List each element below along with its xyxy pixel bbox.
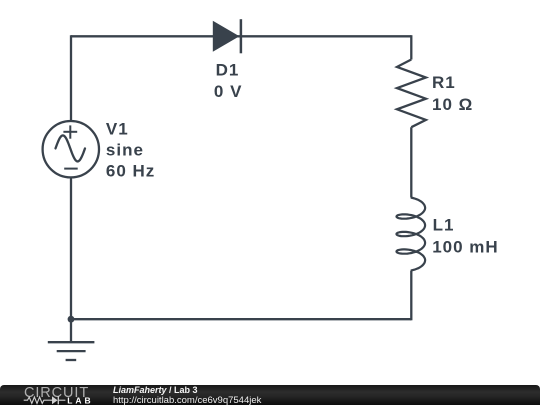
footer title xyxy=(113,385,198,395)
label V1 xyxy=(106,120,155,181)
wire right vertical lower xyxy=(410,271,412,321)
CircuitLab logo diode glyph xyxy=(52,396,58,404)
voltage source V1 sine wave xyxy=(56,135,86,161)
ground symbol xyxy=(48,342,95,360)
resistor R1 xyxy=(397,60,426,128)
voltage source minus sign xyxy=(64,168,78,170)
diode D1 xyxy=(213,21,240,52)
wire left vertical lower xyxy=(70,178,72,344)
junction node dot xyxy=(68,316,75,323)
label L1 xyxy=(432,216,498,257)
wire top horizontal xyxy=(71,35,411,37)
wire left vertical upper xyxy=(70,35,72,121)
wire bottom horizontal xyxy=(71,318,411,320)
wire right vertical middle xyxy=(410,127,412,197)
CircuitLab logo schematic line xyxy=(24,396,66,404)
footer bar xyxy=(0,385,540,405)
wire right vertical upper xyxy=(410,35,412,59)
voltage source plus sign xyxy=(63,125,77,138)
label R1 xyxy=(432,73,473,114)
inductor L1 xyxy=(397,198,426,271)
voltage source V1 circle xyxy=(43,121,99,177)
svg-text:LAB: LAB xyxy=(67,395,93,405)
diode D1 cathode bar xyxy=(240,19,243,53)
footer url xyxy=(113,395,261,405)
label D1 xyxy=(214,61,243,101)
